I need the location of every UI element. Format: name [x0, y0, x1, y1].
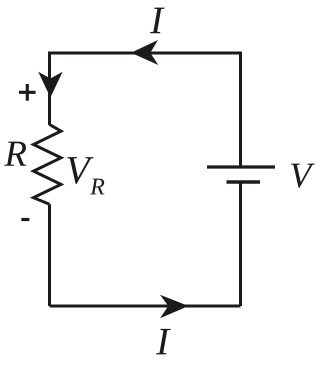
- wire left side upper: [48, 52, 51, 126]
- label R (resistor): [4, 142, 26, 166]
- wire left side lower: [48, 204, 51, 306]
- current arrow on top wire pointing left: [131, 40, 158, 65]
- current arrow on left wire pointing down: [38, 72, 62, 98]
- wire right side upper: [239, 52, 242, 168]
- current arrow on bottom wire pointing right: [160, 295, 189, 319]
- label V (battery voltage): [291, 164, 315, 188]
- wire right side lower: [239, 182, 242, 306]
- minus sign of V_R polarity: [21, 218, 29, 221]
- plus sign of V_R polarity: [19, 84, 36, 101]
- label I (top current): [150, 8, 165, 34]
- label I (bottom current): [156, 329, 171, 355]
- wire top side: [50, 52, 241, 55]
- resistor R zigzag: [34, 125, 62, 205]
- battery V short plate: [227, 180, 261, 184]
- wire bottom side: [50, 305, 241, 308]
- battery V long plate: [207, 165, 275, 168]
- label V_R (resistor voltage): [67, 157, 93, 184]
